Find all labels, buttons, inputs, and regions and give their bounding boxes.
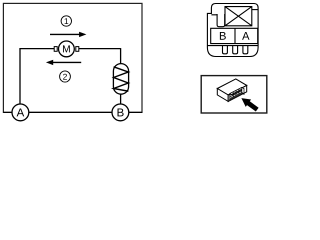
- arrow 1 (rightward, above motor): [50, 32, 86, 37]
- terminal block collar: [229, 93, 244, 100]
- pointer arrow: [241, 98, 258, 111]
- pin cell box B/A: [211, 28, 258, 43]
- pin label B: [220, 32, 226, 40]
- terminal B: [112, 104, 129, 121]
- filter F1 (capsule with zigzag): [113, 64, 128, 95]
- wire bottom (through terminals): [3, 111, 142, 113]
- wire right vertical lower: [120, 94, 122, 104]
- connector lock notch right: [252, 9, 258, 11]
- connector lock notch left: [211, 14, 224, 27]
- tooth slot 3: [243, 46, 248, 54]
- pin label A: [242, 32, 249, 40]
- wire top right segment: [78, 48, 121, 50]
- wire top left segment: [19, 48, 54, 50]
- panel frame (left schematic box): [3, 3, 142, 112]
- wire right vertical upper: [120, 48, 122, 64]
- label circle 1: [61, 16, 71, 26]
- label circle 2: [60, 71, 71, 82]
- wire left vertical: [19, 49, 21, 104]
- tooth slot 1: [223, 46, 228, 54]
- tooth slot 2: [233, 46, 238, 54]
- motor M1: [54, 41, 79, 57]
- connector 3d body: [217, 79, 246, 102]
- connector rear-view icon (top right): [207, 4, 258, 57]
- bottom band line: [207, 45, 258, 47]
- panel frame (bottom right photo box): [201, 76, 267, 113]
- connector shell outline: [207, 4, 258, 57]
- terminal A: [12, 104, 29, 121]
- crossed cavity box: [225, 7, 252, 26]
- arrow 2 (leftward, below motor): [46, 60, 81, 65]
- connector 3d terminal block: [229, 87, 244, 100]
